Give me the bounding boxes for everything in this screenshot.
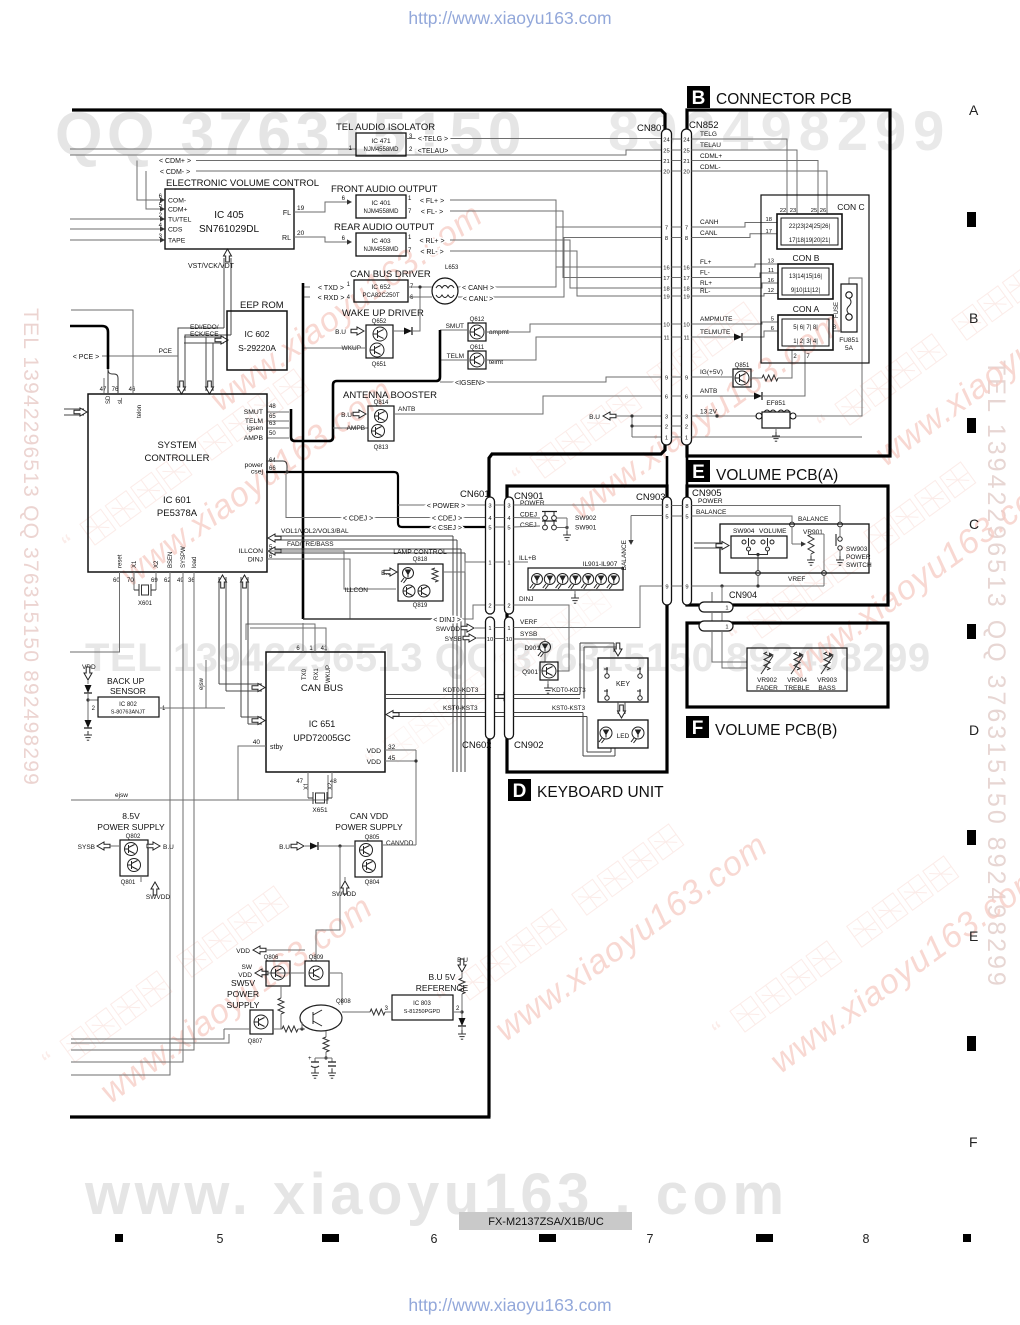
svg-text:KDT0-KDT3: KDT0-KDT3 bbox=[443, 687, 479, 694]
wire load bbox=[71, 572, 194, 1050]
svg-text:+: + bbox=[308, 1056, 312, 1062]
wire igsen bbox=[440, 377, 662, 382]
svg-text:FL-: FL- bbox=[700, 270, 710, 277]
svg-text:ejsw: ejsw bbox=[115, 792, 128, 799]
fuse FU851 bbox=[841, 284, 857, 332]
svg-text:ANTB: ANTB bbox=[700, 388, 717, 395]
svg-text:Q801: Q801 bbox=[121, 880, 136, 886]
wire TELMUTE to CON A bbox=[692, 336, 735, 338]
svg-text:16: 16 bbox=[663, 265, 669, 271]
svg-text:VDD: VDD bbox=[367, 759, 381, 766]
svg-text:< RL- >: < RL- > bbox=[420, 249, 443, 256]
svg-text:D: D bbox=[969, 722, 979, 738]
wire DINJ bbox=[267, 559, 350, 619]
svg-text:FADER: FADER bbox=[756, 685, 778, 692]
bus KEY to LED bbox=[617, 702, 619, 714]
svg-text:5: 5 bbox=[507, 525, 510, 531]
wire CANL to CON C bbox=[692, 234, 778, 238]
svg-text:SWITCH: SWITCH bbox=[846, 562, 872, 569]
svg-text:26: 26 bbox=[820, 208, 826, 214]
svg-text:48: 48 bbox=[269, 404, 276, 410]
wire RXD bbox=[304, 296, 310, 298]
CON group enclosure bbox=[761, 195, 869, 363]
svg-text:WKUP: WKUP bbox=[326, 665, 332, 683]
svg-text:B.U: B.U bbox=[589, 414, 600, 421]
svg-text:RL-: RL- bbox=[700, 288, 710, 295]
svg-text:25: 25 bbox=[663, 148, 669, 154]
svg-text:FL: FL bbox=[283, 210, 291, 217]
svg-text:IC 403: IC 403 bbox=[371, 238, 391, 245]
svg-text:POWER: POWER bbox=[227, 989, 259, 999]
wire WKUP bbox=[250, 628, 326, 652]
svg-text:5: 5 bbox=[685, 514, 688, 520]
svg-text:Q819: Q819 bbox=[413, 603, 428, 609]
wire FL+ to CON B bbox=[692, 264, 779, 267]
wire CDS input bbox=[70, 228, 164, 230]
svg-text:5| 6| 7| 8|: 5| 6| 7| 8| bbox=[793, 325, 818, 331]
svg-text:RL+: RL+ bbox=[700, 280, 712, 287]
svg-text:KST0-KST3: KST0-KST3 bbox=[443, 705, 478, 712]
svg-text:F: F bbox=[969, 1134, 978, 1150]
svg-text:SYSB: SYSB bbox=[445, 636, 462, 643]
svg-text:telon: telon bbox=[137, 405, 143, 418]
svg-text:TELAU: TELAU bbox=[700, 142, 721, 149]
connector PCB B outline bbox=[687, 110, 890, 456]
svg-text:stby: stby bbox=[270, 744, 283, 751]
svg-text:VR901: VR901 bbox=[803, 529, 823, 536]
svg-text:IC 401: IC 401 bbox=[371, 200, 391, 207]
svg-text:SW902: SW902 bbox=[575, 515, 597, 522]
bus thick vertical (TXD/RXD trunk) bbox=[302, 283, 305, 619]
svg-text:FAD/TRE/BASS: FAD/TRE/BASS bbox=[287, 541, 334, 548]
svg-text:9|10|11|12|: 9|10|11|12| bbox=[791, 288, 821, 294]
svg-text:VR904: VR904 bbox=[787, 677, 807, 684]
svg-text:24: 24 bbox=[683, 137, 690, 143]
key matrix bbox=[598, 658, 648, 702]
svg-text:AMPB: AMPB bbox=[244, 435, 264, 442]
wire TEL audio input bbox=[70, 148, 356, 150]
svg-text:1: 1 bbox=[488, 560, 491, 566]
svg-text:igsen: igsen bbox=[247, 425, 263, 432]
svg-text:SW: SW bbox=[242, 964, 253, 971]
svg-text:17: 17 bbox=[683, 276, 689, 282]
svg-text:BALANCE: BALANCE bbox=[696, 509, 727, 516]
svg-text:SW901: SW901 bbox=[575, 525, 597, 532]
svg-text:IC 651: IC 651 bbox=[309, 719, 336, 729]
svg-text:TREBLE: TREBLE bbox=[784, 685, 810, 692]
svg-text:< RXD >: < RXD > bbox=[318, 295, 345, 302]
svg-text:B.U: B.U bbox=[335, 329, 346, 336]
svg-text:KST0-KST3: KST0-KST3 bbox=[552, 705, 586, 712]
svg-text:IC 601: IC 601 bbox=[163, 495, 191, 506]
svg-text:CDML+: CDML+ bbox=[700, 153, 722, 160]
svg-text:Q652: Q652 bbox=[372, 319, 387, 325]
svg-text:3: 3 bbox=[685, 414, 688, 420]
svg-text:CSEJ: CSEJ bbox=[520, 522, 537, 529]
resistor Q808 emitter bbox=[325, 1031, 327, 1037]
wire CDML+ to CON C bbox=[692, 161, 819, 215]
svg-text:NJM4558MD: NJM4558MD bbox=[363, 147, 399, 153]
wire power pin 64 bbox=[266, 461, 287, 472]
volume PCB B (F) outline bbox=[687, 623, 888, 707]
svg-text:CN902: CN902 bbox=[514, 740, 544, 751]
svg-text:1: 1 bbox=[685, 435, 688, 441]
svg-text:BSEN: BSEN bbox=[168, 552, 174, 568]
svg-text:VST/VCK/VDT: VST/VCK/VDT bbox=[188, 263, 235, 270]
diode VDD bbox=[85, 685, 92, 693]
svg-text:3: 3 bbox=[488, 503, 491, 509]
svg-text:CDML-: CDML- bbox=[700, 164, 721, 171]
svg-text:41: 41 bbox=[321, 646, 328, 652]
wire CANH to CON C bbox=[692, 223, 778, 228]
svg-text:X1: X1 bbox=[132, 560, 138, 568]
svg-text:25: 25 bbox=[683, 148, 689, 154]
svg-text:< TXD >: < TXD > bbox=[318, 285, 344, 292]
svg-text:SYSB: SYSB bbox=[78, 844, 95, 851]
svg-text:X651: X651 bbox=[312, 807, 328, 814]
wire FL- to CON B bbox=[692, 273, 779, 278]
svg-text:Q813: Q813 bbox=[374, 445, 389, 451]
svg-text:TEL 13942296513 QQ 376315150 8: TEL 13942296513 QQ 376315150 892498299 bbox=[19, 308, 42, 786]
wire BSEN bbox=[71, 572, 170, 1075]
wire TELAU run bbox=[70, 150, 662, 155]
wire ILLCON bbox=[267, 551, 396, 589]
wire SMUT bbox=[440, 329, 468, 331]
wire AMPB to booster bbox=[333, 427, 368, 429]
wire RX1 bbox=[246, 624, 315, 652]
svg-text:Q806: Q806 bbox=[264, 955, 279, 961]
diode B.U ref bbox=[459, 1018, 466, 1026]
svg-text:KEYBOARD UNIT: KEYBOARD UNIT bbox=[537, 784, 664, 801]
svg-text:ILLCON: ILLCON bbox=[238, 548, 263, 555]
svg-text:AMPMUTE: AMPMUTE bbox=[700, 316, 733, 323]
svg-text:F: F bbox=[692, 718, 704, 739]
svg-text:6: 6 bbox=[685, 394, 688, 400]
svg-text:<IGSEN>: <IGSEN> bbox=[455, 380, 485, 387]
svg-text:DINJ: DINJ bbox=[248, 557, 263, 564]
resistor R-sw5v horizontal bbox=[273, 1028, 282, 1030]
resistor R851 bbox=[751, 377, 762, 379]
wire FL to IC401 bbox=[294, 202, 350, 212]
svg-text:PCE: PCE bbox=[159, 348, 173, 355]
resistor R-sw5v vertical bbox=[280, 986, 282, 998]
svg-text:Q818: Q818 bbox=[413, 557, 428, 563]
svg-text:Q808: Q808 bbox=[336, 999, 351, 1005]
svg-text:13|14|15|16|: 13|14|15|16| bbox=[789, 274, 822, 280]
svg-text:TELG: TELG bbox=[700, 131, 717, 138]
svg-text:47: 47 bbox=[296, 779, 303, 785]
svg-text:COM-: COM- bbox=[168, 198, 186, 205]
svg-text:IC 803: IC 803 bbox=[413, 1001, 431, 1007]
svg-text:5: 5 bbox=[771, 317, 774, 323]
svg-text:1: 1 bbox=[725, 606, 728, 612]
svg-text:CDM+: CDM+ bbox=[168, 207, 187, 214]
svg-text:X601: X601 bbox=[138, 601, 153, 607]
svg-text:TX0: TX0 bbox=[302, 668, 308, 680]
svg-text:3: 3 bbox=[665, 414, 668, 420]
svg-text:IC 602: IC 602 bbox=[244, 329, 269, 339]
svg-text:E: E bbox=[692, 462, 705, 483]
svg-text:CONTROLLER: CONTROLLER bbox=[145, 453, 210, 464]
wire TXD bbox=[304, 286, 310, 288]
wire CANH bbox=[458, 227, 662, 287]
svg-text:7: 7 bbox=[665, 225, 668, 231]
svg-text:ILLCON: ILLCON bbox=[345, 587, 369, 594]
svg-text:VR903: VR903 bbox=[817, 677, 837, 684]
svg-text:SENSOR: SENSOR bbox=[110, 686, 146, 696]
svg-text:CON B: CON B bbox=[793, 253, 820, 263]
svg-text:< PCE >: < PCE > bbox=[73, 354, 99, 361]
svg-text:5: 5 bbox=[665, 514, 668, 520]
svg-text:PCA82C250T: PCA82C250T bbox=[362, 293, 399, 299]
node DINJ bbox=[460, 605, 486, 619]
svg-text:18: 18 bbox=[663, 286, 669, 292]
svg-text:CAN BUS DRIVER: CAN BUS DRIVER bbox=[350, 269, 431, 280]
svg-text:AMPB: AMPB bbox=[347, 425, 365, 432]
svg-text:2: 2 bbox=[685, 424, 688, 430]
svg-text:69: 69 bbox=[151, 578, 158, 584]
diode wake-up bbox=[393, 330, 404, 332]
svg-text:SWVDD: SWVDD bbox=[146, 894, 171, 901]
svg-text:EF851: EF851 bbox=[766, 400, 786, 407]
wire pin46 bbox=[71, 310, 133, 393]
svg-text:8: 8 bbox=[685, 504, 688, 510]
svg-text:76: 76 bbox=[112, 387, 119, 393]
capacitor C-sw5v pair bbox=[315, 1057, 332, 1059]
svg-text:8: 8 bbox=[685, 236, 688, 242]
svg-text:12: 12 bbox=[768, 288, 774, 294]
svg-text:L653: L653 bbox=[445, 265, 459, 271]
potentiometer VR904 bbox=[794, 652, 800, 670]
svg-text:Q804: Q804 bbox=[365, 880, 380, 886]
svg-text:9: 9 bbox=[665, 584, 668, 590]
wire CDML- to CON C bbox=[692, 171, 828, 214]
svg-text:6: 6 bbox=[665, 394, 668, 400]
svg-text:70: 70 bbox=[127, 578, 134, 584]
svg-text:18: 18 bbox=[683, 286, 689, 292]
wire 13.2V rows bbox=[616, 415, 662, 417]
svg-text:VR902: VR902 bbox=[757, 677, 777, 684]
svg-text:CN904: CN904 bbox=[729, 590, 757, 600]
svg-text:19: 19 bbox=[663, 294, 669, 300]
svg-text:POWER: POWER bbox=[698, 498, 723, 505]
svg-text:BALANCE: BALANCE bbox=[621, 539, 628, 570]
wire TELAU to CON C bbox=[692, 150, 798, 214]
svg-text:reset: reset bbox=[118, 554, 124, 568]
wire POWER row bbox=[398, 504, 486, 506]
wire CN852 row1 to filter rail bbox=[692, 436, 863, 438]
svg-text:CN852: CN852 bbox=[689, 120, 719, 131]
svg-text:KDT0-KDT3: KDT0-KDT3 bbox=[552, 687, 586, 694]
section label D bbox=[508, 779, 531, 801]
svg-text:VOLUME PCB(B): VOLUME PCB(B) bbox=[715, 722, 837, 739]
svg-text:IC 652: IC 652 bbox=[371, 284, 391, 291]
svg-text:20: 20 bbox=[297, 230, 305, 237]
svg-text:< POWER >: < POWER > bbox=[427, 503, 466, 510]
svg-text:SW5V: SW5V bbox=[231, 978, 255, 988]
svg-text:22: 22 bbox=[780, 208, 786, 214]
svg-text:23: 23 bbox=[790, 208, 796, 214]
svg-text:BALANCE: BALANCE bbox=[798, 516, 829, 523]
svg-text:Q805: Q805 bbox=[365, 835, 380, 841]
svg-text:< CSEJ >: < CSEJ > bbox=[432, 525, 462, 532]
wire row8 keyboard bbox=[640, 585, 663, 587]
svg-text:REAR AUDIO OUTPUT: REAR AUDIO OUTPUT bbox=[334, 222, 434, 233]
svg-text:POWER: POWER bbox=[846, 554, 871, 561]
svg-text:9: 9 bbox=[685, 375, 688, 381]
wire reset bbox=[70, 572, 120, 652]
svg-text:ELECTRONIC VOLUME CONTROL: ELECTRONIC VOLUME CONTROL bbox=[166, 178, 319, 189]
svg-text:63: 63 bbox=[269, 421, 276, 427]
svg-text:EEP ROM: EEP ROM bbox=[240, 300, 284, 311]
svg-text:PE5378A: PE5378A bbox=[157, 508, 198, 519]
wire TELG bbox=[406, 138, 662, 140]
svg-text:CDS: CDS bbox=[168, 227, 183, 234]
svg-text:17: 17 bbox=[663, 276, 669, 282]
svg-text:Q611: Q611 bbox=[470, 345, 485, 351]
svg-text:1: 1 bbox=[507, 560, 510, 566]
svg-text:X1: X1 bbox=[304, 782, 310, 790]
bus arrows IC601 to IC651 bbox=[218, 577, 220, 684]
svg-text:1: 1 bbox=[488, 626, 491, 632]
svg-text:VOLUME: VOLUME bbox=[759, 528, 787, 535]
wire RL+ bbox=[450, 240, 662, 288]
svg-text:< RL+ >: < RL+ > bbox=[419, 238, 444, 245]
section label E bbox=[687, 460, 710, 482]
svg-text:VDD: VDD bbox=[236, 948, 250, 955]
svg-text:A: A bbox=[969, 102, 979, 118]
svg-text:17: 17 bbox=[766, 229, 772, 235]
svg-text:2: 2 bbox=[665, 424, 668, 430]
svg-text:http://www.xiaoyu163.com: http://www.xiaoyu163.com bbox=[408, 8, 611, 28]
svg-text:ANTENNA BOOSTER: ANTENNA BOOSTER bbox=[343, 390, 437, 401]
wire PCE bbox=[102, 355, 178, 357]
svg-text:1| 2| 3| 4|: 1| 2| 3| 4| bbox=[793, 339, 818, 345]
svg-text:TU/TEL: TU/TEL bbox=[168, 217, 192, 224]
svg-text:UPD72005GC: UPD72005GC bbox=[293, 733, 351, 743]
svg-text:19: 19 bbox=[297, 205, 305, 212]
wire TX0 bbox=[302, 623, 304, 652]
svg-text:RL: RL bbox=[282, 235, 291, 242]
svg-text:CANH: CANH bbox=[700, 219, 719, 226]
bus IC601 right pins trunk bbox=[267, 411, 289, 413]
svg-text:5A: 5A bbox=[845, 345, 854, 352]
svg-text:10: 10 bbox=[506, 637, 512, 643]
thick bus from page edge to IC601 bbox=[70, 326, 108, 369]
wire ILL+B bbox=[443, 562, 486, 572]
svg-text:5: 5 bbox=[488, 525, 491, 531]
svg-text:65: 65 bbox=[269, 414, 276, 420]
wire AMPMUTE to CON A bbox=[692, 322, 779, 324]
keyboard unit D outline bbox=[507, 486, 667, 772]
wire TELG to CON C bbox=[692, 139, 788, 214]
svg-text:8: 8 bbox=[665, 236, 668, 242]
wire CN904 links to pots bbox=[712, 631, 747, 662]
svg-text:B: B bbox=[692, 88, 706, 109]
svg-text:< DINJ >: < DINJ > bbox=[433, 617, 461, 624]
svg-text:< CDEJ >: < CDEJ > bbox=[343, 516, 373, 523]
svg-text:24: 24 bbox=[663, 137, 670, 143]
svg-text:20: 20 bbox=[663, 169, 669, 175]
svg-text:SD: SD bbox=[106, 395, 112, 404]
svg-text:VERF: VERF bbox=[520, 619, 537, 626]
svg-text:csej: csej bbox=[251, 469, 264, 476]
svg-text:Q814: Q814 bbox=[374, 400, 389, 406]
svg-text:IG(+5V): IG(+5V) bbox=[700, 369, 723, 376]
resistor into IC803 bbox=[342, 1011, 370, 1013]
wire RL+ to CON B bbox=[692, 283, 779, 288]
svg-text:FUSE: FUSE bbox=[834, 302, 840, 318]
svg-text:KEY: KEY bbox=[616, 681, 630, 688]
svg-text:IL901-IL907: IL901-IL907 bbox=[583, 561, 618, 568]
wire ANTB diode bbox=[692, 395, 755, 397]
svg-text:SUPPLY: SUPPLY bbox=[227, 1000, 260, 1010]
svg-text:SW903: SW903 bbox=[846, 546, 868, 553]
svg-text:http://www.xiaoyu163.com: http://www.xiaoyu163.com bbox=[408, 1295, 611, 1315]
svg-text:TEL AUDIO ISOLATOR: TEL AUDIO ISOLATOR bbox=[336, 122, 435, 133]
svg-text:< CDEJ >: < CDEJ > bbox=[432, 516, 462, 523]
IC601 system controller bbox=[88, 394, 267, 572]
svg-text:11: 11 bbox=[768, 268, 774, 274]
svg-text:50: 50 bbox=[269, 431, 276, 437]
svg-text:VOL1/VOL2/VOL3/BAL: VOL1/VOL2/VOL3/BAL bbox=[281, 528, 349, 535]
svg-text:DINJ: DINJ bbox=[519, 596, 533, 603]
svg-text:FX-M2137ZSA/X1B/UC: FX-M2137ZSA/X1B/UC bbox=[488, 1216, 604, 1228]
wire CDM- bbox=[196, 170, 662, 172]
switch SW903 power switch bbox=[839, 527, 841, 536]
svg-text:10: 10 bbox=[663, 322, 669, 328]
svg-text:1: 1 bbox=[725, 625, 728, 631]
svg-text:CANVDD: CANVDD bbox=[386, 840, 414, 847]
svg-text:SYSB: SYSB bbox=[520, 631, 537, 638]
svg-text:CANL: CANL bbox=[700, 230, 718, 237]
svg-text:9: 9 bbox=[685, 584, 688, 590]
svg-text:SW904: SW904 bbox=[733, 528, 755, 535]
svg-text:8: 8 bbox=[863, 1232, 870, 1246]
wire EF851 to fuse bbox=[796, 278, 862, 416]
svg-text:Q809: Q809 bbox=[309, 955, 324, 961]
svg-text:load: load bbox=[192, 557, 198, 568]
svg-text:IC 405: IC 405 bbox=[214, 210, 244, 221]
wire FL- bbox=[450, 211, 662, 278]
svg-text:19: 19 bbox=[683, 294, 689, 300]
svg-text:< CDM- >: < CDM- > bbox=[160, 169, 190, 176]
svg-text:SWVDD: SWVDD bbox=[436, 626, 461, 633]
switch SW901 bbox=[543, 525, 548, 530]
svg-text:POWER SUPPLY: POWER SUPPLY bbox=[335, 822, 403, 832]
svg-text:sL: sL bbox=[118, 397, 124, 404]
svg-text:CAN VDD: CAN VDD bbox=[350, 811, 388, 821]
svg-text:6: 6 bbox=[431, 1232, 438, 1246]
volume block box bbox=[720, 524, 869, 573]
svg-text:EDI/EDO/: EDI/EDO/ bbox=[190, 324, 219, 331]
wire 13.2V bbox=[692, 415, 758, 417]
svg-text:Q802: Q802 bbox=[126, 834, 141, 840]
LED indicator box bbox=[598, 720, 648, 748]
wire TAPE input bbox=[70, 239, 164, 241]
svg-text:WAKE UP DRIVER: WAKE UP DRIVER bbox=[342, 308, 424, 319]
volume PCB A (E) outline bbox=[687, 486, 888, 605]
svg-text:22|23|24|25|26|: 22|23|24|25|26| bbox=[789, 224, 831, 230]
wire IC802 out bbox=[159, 707, 225, 709]
svg-text:TELM: TELM bbox=[245, 418, 263, 425]
main unit PCB outline bbox=[72, 110, 665, 131]
svg-text:< TELG >: < TELG > bbox=[418, 136, 448, 143]
svg-text:48: 48 bbox=[330, 779, 337, 785]
svg-text:POWER: POWER bbox=[520, 500, 545, 507]
svg-text:FU851: FU851 bbox=[839, 337, 859, 344]
wire WKUP bbox=[304, 347, 366, 349]
